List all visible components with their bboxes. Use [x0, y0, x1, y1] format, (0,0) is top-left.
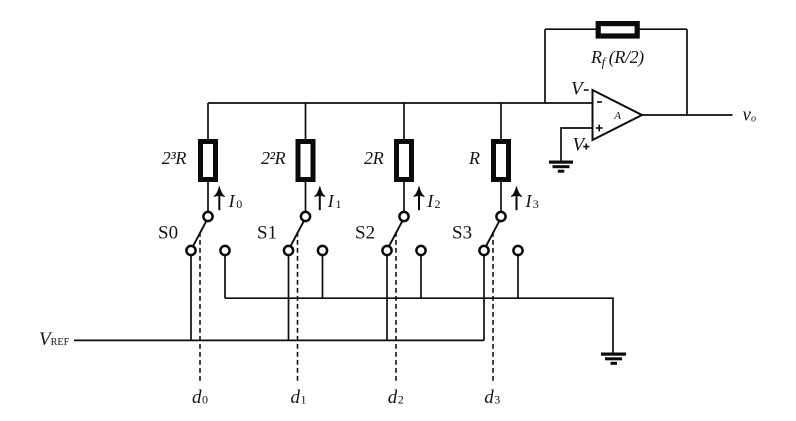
switch S1 right contact — [318, 246, 327, 255]
op-amp A — [593, 90, 643, 140]
svg-text:3: 3 — [533, 197, 539, 211]
wire S0 right contact to ground bus — [224, 255, 226, 298]
switch S2 right contact — [416, 246, 425, 255]
switch S2 pole — [399, 212, 408, 221]
switch S1 pole — [301, 212, 310, 221]
svg-text:Rf (R/2): Rf (R/2) — [590, 47, 644, 69]
svg-text:S2: S2 — [355, 223, 375, 244]
resistor 2^3 R — [201, 142, 216, 180]
wire op-amp noninverting input — [561, 128, 593, 161]
svg-text:0: 0 — [236, 197, 242, 211]
svg-text:1: 1 — [336, 197, 342, 211]
svg-text:1: 1 — [301, 393, 307, 407]
wire feedback left vertical — [544, 29, 546, 103]
switch S3 left contact — [479, 246, 488, 255]
wire feedback right vertical — [686, 29, 688, 115]
wire S0 left contact to VREF bus — [190, 255, 192, 340]
svg-text:3: 3 — [494, 393, 500, 407]
control line d0 (dashed) — [199, 232, 201, 383]
wire resistor to switch S2 — [403, 182, 405, 212]
svg-text:S3: S3 — [452, 223, 472, 244]
wire S3 left contact to VREF bus — [483, 255, 485, 340]
switch S2 blade — [389, 221, 402, 246]
switch S3 pole — [496, 212, 505, 221]
svg-text:I: I — [327, 191, 335, 211]
op-amp noninverting pin mark — [596, 125, 603, 132]
wire branch 1 from bus to resistor — [207, 103, 209, 140]
control line d2 (dashed) — [395, 232, 397, 383]
svg-text:2³R: 2³R — [162, 148, 187, 168]
svg-text:0: 0 — [202, 393, 208, 407]
wire resistor to switch S0 — [207, 182, 209, 212]
switch S1 left contact — [284, 246, 293, 255]
resistor 2^2 R — [298, 142, 313, 180]
wire feedback top right segment — [637, 28, 687, 30]
wire S2 right contact to ground bus — [420, 255, 422, 298]
wire resistor to switch S3 — [500, 182, 502, 212]
svg-text:A: A — [613, 110, 621, 122]
switch S3 right contact — [513, 246, 522, 255]
wire top summing bus (V- node) — [208, 102, 593, 104]
svg-text:2: 2 — [435, 197, 441, 211]
resistor R — [494, 142, 509, 180]
ground at op-amp V+ — [549, 161, 573, 173]
svg-text:2²R: 2²R — [261, 148, 286, 168]
svg-text:I: I — [228, 191, 236, 211]
svg-text:2: 2 — [398, 393, 404, 407]
svg-text:S0: S0 — [158, 223, 178, 244]
control line d1 (dashed) — [297, 232, 299, 383]
svg-text:d: d — [291, 387, 301, 408]
wire VREF bus — [74, 339, 484, 341]
svg-text:R: R — [468, 148, 480, 168]
wire resistor to switch S1 — [305, 182, 307, 212]
svg-text:d: d — [388, 387, 398, 408]
resistor 2R — [397, 142, 412, 180]
svg-text:d: d — [192, 387, 202, 408]
svg-text:2R: 2R — [364, 148, 384, 168]
switch S0 right contact — [220, 246, 229, 255]
current arrow I0 — [214, 186, 225, 210]
current arrow I2 — [414, 186, 425, 210]
resistor Rf (R/2) — [598, 24, 637, 36]
wire branch 3 from bus to resistor — [403, 103, 405, 140]
wire op-amp output — [642, 114, 733, 116]
op-amp inverting pin mark — [597, 101, 602, 103]
switch S0 blade — [193, 221, 206, 246]
wire branch 4 from bus to resistor — [500, 103, 502, 140]
wire S3 right contact to ground bus — [517, 255, 519, 298]
wire S1 right contact to ground bus — [322, 255, 324, 298]
svg-text:I: I — [426, 191, 434, 211]
wire feedback top left segment — [545, 28, 599, 30]
switch S3 blade — [486, 221, 499, 246]
wire branch 2 from bus to resistor — [305, 103, 307, 140]
control line d3 (dashed) — [492, 232, 494, 383]
svg-text:I: I — [525, 191, 533, 211]
svg-text:d: d — [484, 387, 494, 408]
switch S2 left contact — [382, 246, 391, 255]
wire S2 left contact to VREF bus — [386, 255, 388, 340]
switch S1 blade — [291, 221, 304, 246]
wire ground bus — [225, 298, 613, 353]
wire S1 left contact to VREF bus — [288, 255, 290, 340]
current arrow I1 — [314, 186, 325, 210]
svg-text:S1: S1 — [257, 223, 277, 244]
switch S0 pole — [203, 212, 212, 221]
ground at bottom bus — [601, 353, 626, 365]
current arrow I3 — [511, 186, 522, 210]
svg-text:REF: REF — [51, 337, 70, 348]
switch S0 left contact — [186, 246, 195, 255]
